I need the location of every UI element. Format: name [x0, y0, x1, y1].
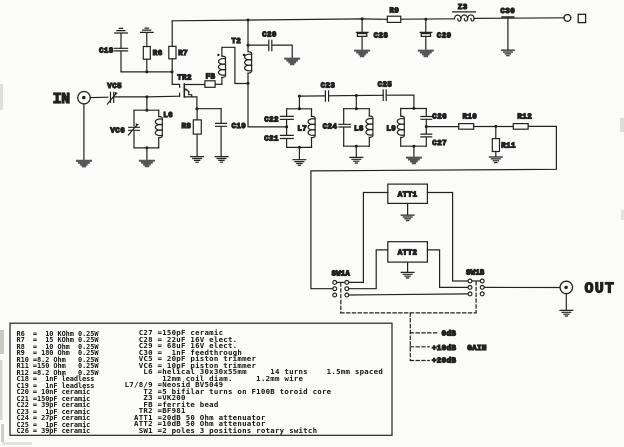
capacitor C19	[216, 109, 227, 157]
node T2 rail junction	[247, 19, 250, 22]
wire R10 to R12	[474, 126, 514, 128]
node input junction	[145, 95, 148, 98]
node L9 top	[412, 107, 415, 110]
wire bias rail	[121, 71, 172, 73]
connector IN	[78, 92, 90, 104]
capacitor C30 feedthrough	[502, 17, 514, 50]
node C22-C21 feed junction	[285, 125, 288, 128]
svg-text:IN: IN	[53, 91, 71, 108]
wire L6 tank ground stem	[146, 148, 148, 160]
SW1A linkage dashed	[340, 283, 342, 313]
svg-text:R6: R6	[153, 50, 163, 58]
transformer T2 secondary winding	[245, 20, 252, 84]
wire R12 return loop to SW1A	[311, 126, 557, 288]
wire ATT2 ground stem	[407, 262, 409, 272]
svg-text:+20dB: +20dB	[432, 358, 456, 366]
node C28 rail junction	[361, 17, 364, 20]
svg-text:GAIN: GAIN	[467, 345, 487, 353]
gain stub 0dB	[410, 332, 437, 334]
tank VC6/L6 box top	[134, 109, 159, 111]
wire L8 ground stem	[355, 146, 357, 157]
capacitor C24	[339, 124, 351, 127]
node C29 rail junction	[424, 18, 427, 21]
parts list box	[10, 323, 392, 435]
svg-text:L8: L8	[354, 125, 364, 133]
svg-text:R12: R12	[517, 113, 532, 121]
tank L7 box	[287, 109, 312, 148]
supply connector circle	[564, 15, 571, 22]
tank L8 box	[344, 109, 370, 147]
inductor L9	[397, 109, 404, 147]
wire ATT2 output	[427, 250, 468, 288]
capacitor C27	[421, 134, 432, 137]
capacitor C18	[115, 48, 128, 72]
svg-text:C21: C21	[264, 136, 279, 144]
parts list right column	[125, 330, 383, 434]
wire L7 tank stem	[298, 96, 300, 109]
svg-text:R8: R8	[182, 123, 192, 131]
attenuator ATT1 box	[388, 184, 428, 203]
ground below C30	[502, 50, 515, 56]
trimmer VC6	[128, 110, 139, 148]
node L6 tank top	[145, 109, 148, 112]
attenuator ATT2 box	[388, 242, 428, 262]
switch SW1B contacts	[468, 279, 484, 296]
capacitor C21	[280, 135, 293, 138]
resistor R12	[513, 124, 528, 130]
svg-text:T2: T2	[231, 38, 241, 46]
wire TR2 source rail	[197, 108, 221, 110]
svg-text:C23: C23	[321, 83, 336, 91]
resistor R10	[459, 124, 474, 130]
ground below OUT	[560, 310, 573, 316]
svg-text:C24: C24	[323, 124, 338, 132]
ground above R6	[141, 28, 154, 46]
wire top supply rail right segment	[474, 17, 564, 20]
linkage dashed horizontal	[341, 312, 476, 314]
wire IN stem	[83, 104, 85, 160]
ground below L9	[407, 158, 421, 164]
ground below C19	[215, 157, 228, 163]
tank L9 box	[401, 109, 427, 147]
capacitor C29 electrolytic	[420, 19, 432, 50]
wire L7 ground stem	[298, 147, 300, 159]
supply connector square	[578, 14, 585, 22]
node L7 top	[298, 107, 301, 110]
resistor R11	[492, 126, 499, 156]
svg-text:C25: C25	[378, 81, 393, 89]
node filter rail C23-C25 junction	[355, 94, 358, 97]
inductor L6	[155, 110, 162, 148]
transformer T2 primary winding	[219, 47, 249, 84]
wire filter output to R10	[426, 126, 458, 128]
SW1A wiper bar	[337, 281, 345, 283]
svg-text:+10dB: +10dB	[432, 345, 456, 353]
svg-text:C28: C28	[374, 33, 389, 41]
svg-text:OUT: OUT	[585, 280, 616, 297]
ground below L6 tank	[140, 161, 154, 167]
wire 0dB bypass	[349, 294, 468, 295]
wire ATT1 ground stem	[407, 203, 409, 215]
T2 primary phase dot	[217, 54, 219, 56]
ferrite bead FB	[205, 81, 215, 88]
wire L8 tank stem	[355, 96, 357, 109]
node R6-bias junction	[145, 70, 148, 73]
wire ATT2 input	[349, 250, 388, 289]
choke Z3	[453, 12, 476, 21]
ground below ATT1	[401, 215, 414, 221]
capacitor C25	[383, 90, 386, 100]
SW1B linkage dashed	[475, 282, 477, 313]
svg-text:0dB: 0dB	[442, 331, 457, 339]
ground below C29	[419, 51, 433, 57]
svg-text:C18: C18	[99, 48, 114, 56]
wire filter top rail	[299, 95, 414, 108]
inductor L8	[366, 109, 373, 147]
svg-text:C27: C27	[432, 140, 447, 148]
node L9 bottom	[412, 145, 415, 148]
wire IN to VC5	[90, 96, 108, 98]
svg-text:R11: R11	[501, 143, 516, 151]
wire OUT ground stem	[565, 294, 567, 311]
tank VC6/L6 box bottom	[134, 147, 159, 149]
svg-text:C26: C26	[432, 114, 447, 122]
ground below C20	[285, 59, 299, 65]
parts list left column	[17, 331, 99, 435]
svg-text:C19: C19	[232, 123, 247, 131]
node T2 top junction	[247, 44, 250, 47]
capacitor C23	[325, 91, 328, 101]
T2 secondary phase dot	[243, 54, 245, 56]
node L8 top	[355, 107, 358, 110]
ground below R11	[489, 157, 502, 163]
resistor R8	[193, 109, 201, 157]
svg-text:SW1B: SW1B	[466, 270, 485, 278]
capacitor C28 electrolytic	[356, 19, 368, 50]
gain bracket dashed vertical	[409, 313, 411, 361]
svg-text:R10: R10	[463, 113, 478, 121]
node source junction	[195, 107, 198, 110]
node filter rail L7 junction	[298, 95, 301, 98]
node T2 bottom junction	[247, 82, 250, 85]
svg-text:L7: L7	[297, 125, 307, 133]
node R7-bias junction	[171, 70, 174, 73]
svg-text:R7: R7	[178, 50, 188, 58]
ground below L7	[293, 160, 306, 166]
node L7 bottom	[298, 146, 301, 149]
svg-text:C29: C29	[437, 33, 452, 41]
capacitor C22	[280, 116, 293, 119]
svg-text:C22: C22	[264, 116, 279, 124]
gain stub 20dB	[410, 360, 429, 362]
svg-text:L6: L6	[163, 112, 173, 120]
svg-text:VC5: VC5	[107, 83, 122, 91]
wire VC5 to TR2 gate	[114, 95, 180, 98]
ground below C28	[355, 51, 369, 57]
svg-text:R9: R9	[390, 7, 400, 15]
svg-text:SW1A: SW1A	[332, 271, 351, 279]
resistor R7	[169, 21, 176, 85]
svg-text:VC6: VC6	[110, 127, 125, 135]
resistor R6	[143, 47, 150, 72]
svg-text:FB: FB	[206, 73, 216, 81]
wire top supply rail left segment	[172, 19, 387, 21]
svg-text:C20: C20	[262, 32, 277, 40]
svg-text:L9: L9	[386, 125, 396, 133]
node C26-C27 junction	[425, 125, 428, 128]
inductor L7	[308, 109, 315, 148]
resistor R9	[387, 16, 401, 22]
node attenuator tee	[494, 125, 497, 128]
capacitor C26	[421, 117, 432, 120]
ground below L8	[350, 157, 363, 163]
wire input tank stem	[146, 97, 148, 110]
node L8 bottom	[355, 145, 358, 148]
wire top supply rail mid segment	[401, 18, 455, 20]
wire FB to T2	[215, 83, 222, 85]
ground below ATT2	[401, 272, 414, 278]
ground below R8	[191, 157, 204, 163]
node L6 tank bottom	[145, 146, 148, 149]
svg-text:C30: C30	[500, 8, 515, 16]
wire L9 ground stem	[413, 146, 415, 157]
ground below IN	[77, 161, 91, 167]
svg-text:ATT1: ATT1	[398, 192, 418, 200]
svg-text:Z3: Z3	[458, 4, 468, 12]
SW1B wiper bar	[472, 280, 480, 282]
wire ATT1 input	[349, 193, 388, 283]
svg-text:ATT2: ATT2	[398, 249, 418, 257]
wire T2 to filter feed	[248, 83, 287, 127]
wire SW1B to OUT	[484, 286, 560, 288]
switch SW1A contacts	[333, 281, 349, 297]
wire ATT1 output	[427, 193, 468, 282]
transistor TR2	[172, 84, 205, 109]
connector OUT	[560, 281, 572, 293]
trimmer VC5	[107, 92, 117, 104]
svg-text:TR2: TR2	[177, 74, 192, 82]
gain stub 10dB	[410, 346, 429, 348]
ground above C18	[115, 28, 128, 48]
capacitor C20	[248, 40, 292, 58]
